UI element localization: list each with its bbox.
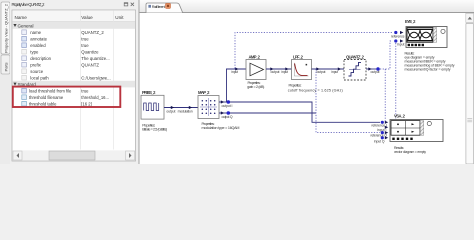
svg-text:input Q: input Q (374, 139, 385, 143)
svg-text:MAP_2: MAP_2 (198, 90, 210, 95)
property panel background (10, 0, 139, 164)
dashed riser EYE input node down to VSA input I (395, 43, 397, 119)
svg-text:Unit: Unit (115, 15, 124, 20)
VSA_2 constellation icon (391, 121, 431, 140)
node VSA reference I (381, 121, 384, 124)
wire AMP to LPF (266, 68, 292, 70)
svg-text:Ports: Ports (3, 63, 8, 72)
node VSA input Q (381, 136, 384, 139)
svg-text:General: General (18, 23, 34, 28)
group row General (12, 22, 135, 29)
svg-text:reference I: reference I (372, 123, 388, 127)
node QUANTZ output (376, 67, 380, 71)
svg-text:Quantize: Quantize (81, 49, 99, 54)
svg-text:type: type (30, 49, 39, 54)
svg-text:threshold table: threshold table (29, 101, 57, 106)
svg-text:input: input (332, 70, 339, 74)
svg-text:true: true (81, 43, 89, 48)
svg-text:description: description (30, 56, 51, 61)
arrow EYE input (400, 39, 403, 42)
svg-text:Bitrate = 2.5 (GBit/s): Bitrate = 2.5 (GBit/s) (142, 128, 167, 132)
svg-text:output: output (317, 70, 326, 74)
arrow EYE reference (400, 31, 403, 34)
horizontal scrollbar of property panel (12, 150, 135, 160)
svg-text:threshold filename: threshold filename (29, 95, 64, 100)
property table frame (12, 10, 136, 161)
PRBS_2 waveform icon (144, 103, 159, 111)
svg-text:cutoff frequency = 1.625 (GHz): cutoff frequency = 1.625 (GHz) (288, 89, 343, 93)
arrow VSA input I (385, 126, 388, 129)
svg-text:annotate: annotate (30, 36, 47, 41)
svg-text:C:/Users/gwe...: C:/Users/gwe... (81, 75, 110, 80)
svg-text:QUANTZ: QUANTZ (81, 62, 99, 67)
svg-text:gain = 2 (dB): gain = 2 (dB) (247, 85, 264, 89)
MAP_2 constellation icon (200, 98, 217, 116)
svg-text:[16 2]: [16 2] (81, 101, 91, 106)
vertical tab: Ports (1, 55, 10, 74)
block QUANTZ_2 (selected, dashed) (344, 60, 366, 81)
svg-text:Value: Value (81, 15, 93, 20)
row annotate (22, 36, 27, 41)
arrow MAP modulation input (189, 106, 192, 109)
dashed riser QUANTZ to VSA reference I (384, 69, 386, 122)
row name (22, 30, 27, 35)
arrow AMP output (270, 67, 273, 70)
row threshold filename (22, 95, 27, 100)
svg-text:Property View - QUANTZ_2: Property View - QUANTZ_2 (12, 2, 46, 7)
svg-text:input: input (397, 42, 405, 46)
svg-text:output Q: output Q (222, 115, 233, 119)
red highlight box (13, 87, 121, 107)
AMP_2 triangle icon (250, 63, 264, 76)
row local path (disabled) (22, 75, 27, 80)
svg-text:EYE_2: EYE_2 (405, 19, 416, 24)
svg-text:measurement/Q-factor = empty: measurement/Q-factor = empty (405, 68, 451, 72)
solid wire MAP output Q run (230, 112, 316, 114)
row description (22, 56, 27, 61)
svg-text:Properties:: Properties: (289, 83, 302, 87)
QUANTZ_2 staircase icon (349, 62, 362, 76)
row prefix (22, 62, 27, 67)
arrow AMP input (235, 67, 238, 70)
svg-text:output: output (371, 70, 380, 74)
svg-text:load threshold from file: load threshold from file (29, 88, 72, 93)
svg-text:prefix: prefix (30, 62, 41, 67)
row threshold table (22, 101, 27, 106)
svg-text:output: output (271, 70, 280, 74)
title close icon (131, 3, 134, 6)
row type (disabled) (22, 49, 27, 54)
svg-text:QUANTZ_2: QUANTZ_2 (81, 30, 104, 35)
svg-text:modulation type = 16QAM: modulation type = 16QAM (202, 126, 240, 130)
wire riser node I to AMP input (227, 69, 247, 102)
tab close button (166, 3, 171, 8)
svg-text:input: input (232, 70, 239, 74)
title pin icon (124, 3, 128, 6)
block PRBS_2 (141, 95, 164, 119)
svg-text:VSA_2: VSA_2 (394, 114, 406, 119)
svg-text:AMP_2: AMP_2 (249, 55, 261, 60)
wire MAP output I stub (219, 101, 227, 103)
wire LPF to QUANTZ (312, 68, 345, 70)
schematic tab bar (140, 0, 474, 13)
arrow VSA reference I (385, 121, 388, 124)
arrow VSA reference Q (385, 131, 388, 134)
arrow LPF output (316, 67, 319, 70)
svg-text:output: output (166, 110, 175, 114)
arrow PRBS output (171, 106, 174, 109)
block VSA_2 (390, 120, 443, 142)
svg-text:Name: Name (15, 15, 28, 20)
vertical tab: Property View - QUANTZ_2 (1, 2, 10, 54)
wire QUANTZ output stub (366, 68, 376, 70)
arrow output I (221, 100, 224, 103)
solid wire MAP output I to VSA reference I (230, 102, 380, 122)
node output Q (227, 111, 231, 115)
svg-text:The quantize...: The quantize... (81, 56, 109, 61)
svg-text:name: name (30, 30, 41, 35)
svg-text:Property View - QUANTZ_2: Property View - QUANTZ_2 (3, 3, 8, 53)
LPF_2 response curve icon (294, 63, 308, 77)
EYE_2 eye-diagram icon (407, 28, 445, 47)
arrow QUANTZ output (368, 67, 371, 70)
left vertical tab strip (0, 0, 10, 164)
block AMP_2 (246, 60, 266, 80)
svg-text:Root Element: Root Element (152, 4, 166, 9)
svg-text:QUANTZ_2: QUANTZ_2 (346, 55, 365, 60)
group row Standard (12, 81, 135, 88)
row source (disabled) (22, 69, 27, 74)
row load threshold from file (22, 88, 27, 93)
arrow VSA input Q (385, 136, 388, 139)
window background (0, 0, 474, 164)
dashed wire QUANTZ to EYE input (380, 41, 393, 69)
block LPF_2 (292, 60, 312, 80)
svg-text:enabled: enabled (30, 43, 46, 48)
node EYE reference (394, 31, 397, 34)
svg-text:threshold_16...: threshold_16... (81, 95, 109, 100)
schematic panel left border (138, 0, 140, 164)
Root Element tab (146, 3, 183, 13)
svg-text:PRBS_2: PRBS_2 (142, 90, 156, 95)
node output I (227, 100, 231, 104)
node VSA reference Q (381, 131, 384, 134)
block MAP_2 (198, 96, 219, 119)
node EYE input (394, 39, 397, 42)
block EYE_2 (406, 27, 447, 48)
wire MAP output Q stub (219, 112, 227, 114)
svg-text:true: true (81, 36, 89, 41)
svg-text:■: ■ (306, 63, 308, 67)
arrow output Q (221, 111, 224, 114)
schematic canvas (140, 13, 466, 164)
wire PRBS to MAP (164, 107, 198, 109)
svg-text:modulation: modulation (178, 110, 193, 114)
svg-text:vector diagram = empty: vector diagram = empty (394, 150, 426, 154)
svg-text:input: input (282, 70, 289, 74)
svg-text:source: source (30, 69, 44, 74)
svg-text:local path: local path (30, 75, 49, 80)
arrow QUANTZ input (338, 67, 341, 70)
svg-text:reference: reference (391, 34, 405, 38)
svg-text:output I: output I (222, 104, 233, 108)
vertical scrollbar of canvas (466, 13, 474, 164)
table header (12, 10, 135, 21)
svg-text:true: true (81, 88, 89, 93)
svg-text:LPF_2: LPF_2 (293, 55, 304, 60)
row enabled (22, 43, 27, 48)
dashed wire to EYE reference (235, 33, 393, 69)
dashed wire to VSA reference Q (316, 69, 380, 133)
arrow LPF input (285, 67, 288, 70)
